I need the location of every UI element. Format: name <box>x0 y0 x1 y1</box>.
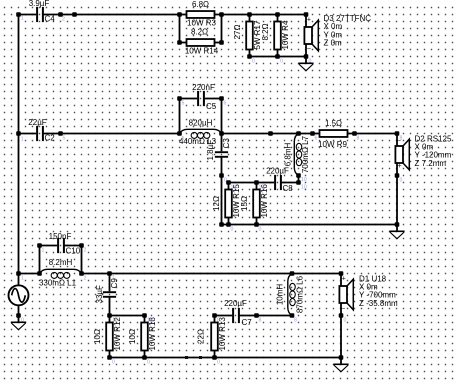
svg-text:22µF: 22µF <box>28 118 47 127</box>
svg-text:8: 8 <box>357 136 360 142</box>
svg-text:8: 8 <box>259 318 262 324</box>
svg-text:0: 0 <box>231 227 234 233</box>
svg-text:15Ω: 15Ω <box>240 196 249 211</box>
inductor L6 <box>288 274 295 316</box>
svg-text:5: 5 <box>182 136 185 142</box>
wire top line R3 to D3 <box>222 14 307 16</box>
svg-text:870mΩ L6: 870mΩ L6 <box>296 275 305 313</box>
wire D1 to ground rail <box>340 316 342 358</box>
wire gen to L1 <box>19 273 40 275</box>
svg-text:C3: C3 <box>222 138 231 149</box>
node (340.5,273.5) <box>339 271 344 276</box>
svg-text:2: 2 <box>62 17 65 23</box>
wire L7 to C8 <box>298 176 300 183</box>
wire C10 left leg <box>39 246 41 274</box>
svg-text:700mΩ L7: 700mΩ L7 <box>301 135 310 173</box>
node (298,133.5) <box>296 131 301 136</box>
wire C10 right leg <box>81 246 83 274</box>
node (60,133.5) <box>58 131 63 136</box>
resistor R16 <box>253 183 260 225</box>
svg-text:+: + <box>307 16 311 23</box>
svg-text:−: − <box>341 306 345 313</box>
svg-text:1: 1 <box>21 137 24 143</box>
node (291.5,315.5) <box>290 313 295 318</box>
svg-text:8: 8 <box>294 318 297 324</box>
inductor L7 <box>294 134 301 176</box>
svg-text:10Ω: 10Ω <box>128 329 137 344</box>
node (298,182.5) <box>296 180 301 185</box>
node (221,224.5) <box>219 222 224 227</box>
ground woofer <box>333 358 348 372</box>
resistor R15 <box>225 183 232 225</box>
capacitor C7 <box>215 308 257 323</box>
node (340.5,315.5) <box>339 313 344 318</box>
svg-text:+: + <box>342 275 346 282</box>
svg-text:C4: C4 <box>45 14 56 23</box>
ground tweeter <box>298 57 313 71</box>
speaker D3 <box>304 15 318 57</box>
svg-text:0: 0 <box>217 360 220 366</box>
node (256,182.5) <box>254 180 259 185</box>
wire C7 to L6 <box>257 315 293 317</box>
node (221,14.5) <box>219 12 224 17</box>
ground below generator <box>11 316 26 330</box>
svg-text:220µF: 220µF <box>266 166 289 175</box>
svg-text:330mΩ L1: 330mΩ L1 <box>39 279 77 288</box>
svg-text:10W R4: 10W R4 <box>281 20 290 49</box>
svg-text:220µF: 220µF <box>224 299 247 308</box>
svg-text:10mH: 10mH <box>276 284 285 306</box>
svg-text:−: − <box>307 46 311 53</box>
svg-text:220nF: 220nF <box>192 83 215 92</box>
node (214,357.5) <box>212 355 217 360</box>
node (256,224.5) <box>254 222 259 227</box>
svg-text:6: 6 <box>224 100 227 106</box>
svg-text:7: 7 <box>112 276 115 282</box>
node (109,357.5) <box>107 355 112 360</box>
svg-text:2: 2 <box>84 248 87 254</box>
wire R3-R14 left <box>179 15 181 43</box>
node (81,273.5) <box>79 271 84 276</box>
wire mid line C2 to L3 <box>61 133 180 135</box>
svg-text:10: 10 <box>301 177 307 183</box>
capacitor C8 <box>257 175 299 190</box>
wire mid line R9 to D2 <box>355 133 398 135</box>
svg-text:12Ω: 12Ω <box>212 196 221 211</box>
resistor R13 <box>211 316 218 358</box>
wire R12-R18 top rail <box>110 315 145 317</box>
svg-text:0: 0 <box>259 227 262 233</box>
capacitor C5 <box>180 91 222 106</box>
node (18,14.5) <box>16 12 21 17</box>
node (305.5,56.5) <box>304 54 309 59</box>
node (298,175.5) <box>296 173 301 178</box>
svg-text:+: + <box>398 163 402 170</box>
node (74,14.5) <box>72 12 77 17</box>
svg-text:16: 16 <box>259 185 265 191</box>
svg-text:0: 0 <box>400 178 403 184</box>
svg-text:2: 2 <box>84 276 87 282</box>
svg-text:Z -35.8mm: Z -35.8mm <box>359 299 398 308</box>
svg-text:1: 1 <box>42 248 45 254</box>
inductor L1 <box>40 269 82 278</box>
node (249,56.5) <box>247 54 252 59</box>
wire mid ground rail <box>222 224 398 226</box>
node (109,273.5) <box>107 271 112 276</box>
wire C5 left leg <box>179 99 181 134</box>
node (228,182.5) <box>226 180 231 185</box>
capacitor C10 <box>40 238 82 253</box>
AC generator G1 <box>9 274 29 316</box>
svg-text:0: 0 <box>280 59 283 65</box>
svg-text:1: 1 <box>21 16 24 22</box>
node (186,357.5) joint <box>185 356 188 359</box>
inductor L3 <box>180 129 222 138</box>
node (221,98.5) <box>219 96 224 101</box>
node (214,315.5) <box>212 313 217 318</box>
svg-text:1.8µF: 1.8µF <box>206 140 215 161</box>
svg-text:18: 18 <box>112 318 118 324</box>
resistor R18 <box>141 316 148 358</box>
node (396.5,133.5) <box>395 131 400 136</box>
node (221,175.5) <box>219 173 224 178</box>
svg-text:22Ω: 22Ω <box>196 329 205 344</box>
node (39,245.5) <box>37 243 42 248</box>
svg-text:10Ω: 10Ω <box>93 329 102 344</box>
node (256,315.5) <box>254 313 259 318</box>
svg-text:0: 0 <box>344 318 347 324</box>
resistor R17 <box>246 15 253 57</box>
resistor R3 <box>180 11 222 18</box>
speaker D2 <box>395 134 409 176</box>
svg-text:0: 0 <box>21 318 24 324</box>
capacitor C2 <box>19 126 61 141</box>
speaker D1 <box>339 274 353 316</box>
svg-text:1.5Ω: 1.5Ω <box>325 119 342 128</box>
resistor R9 <box>313 130 355 137</box>
svg-text:5: 5 <box>63 136 66 142</box>
svg-text:C7: C7 <box>242 318 253 327</box>
node (270,133.5) <box>268 131 273 136</box>
wire R3-R14 right <box>221 15 223 43</box>
svg-text:8: 8 <box>400 136 403 142</box>
svg-text:3.9µF: 3.9µF <box>29 0 50 8</box>
resistor R14 <box>180 39 222 46</box>
svg-text:27Ω: 27Ω <box>233 25 242 40</box>
capacitor C9 <box>103 274 116 316</box>
node (221,42.5) <box>219 40 224 45</box>
wire C5 right leg <box>221 99 223 134</box>
node (179,42.5) <box>177 40 182 45</box>
svg-text:C5: C5 <box>206 102 217 111</box>
wire D2 to ground rail <box>396 176 398 225</box>
node (18,273.5) <box>16 271 21 276</box>
node (396.5,175.5) <box>395 173 400 178</box>
svg-text:1: 1 <box>21 276 24 282</box>
node (81,245.5) <box>79 243 84 248</box>
svg-text:C8: C8 <box>283 184 294 193</box>
node (305.5,14.5) <box>304 12 309 17</box>
node (354,133.5) <box>352 131 357 136</box>
svg-text:150nF: 150nF <box>49 232 72 241</box>
wire top line C4 to R3 <box>61 14 180 16</box>
svg-text:16: 16 <box>231 185 237 191</box>
svg-text:16: 16 <box>147 318 153 324</box>
node (277,14.5) <box>275 12 280 17</box>
wire woofer line L1 to D1 <box>82 273 342 275</box>
capacitor C3 <box>215 134 228 176</box>
node (312,133.5) <box>310 131 315 136</box>
svg-text:33µF: 33µF <box>95 285 104 304</box>
node (39,273.5) <box>37 271 42 276</box>
svg-text:10W R14: 10W R14 <box>185 47 219 56</box>
wire C3 to mid ground rail <box>221 176 223 225</box>
wire mid line L3 to R9 <box>222 133 313 135</box>
svg-text:8.2Ω: 8.2Ω <box>261 23 270 40</box>
wire R15-R16 top rail <box>229 182 257 184</box>
wire tweeter bottom rail <box>250 56 307 58</box>
svg-text:0: 0 <box>112 360 115 366</box>
capacitor C4 <box>19 7 61 22</box>
svg-text:10W R9: 10W R9 <box>318 140 347 149</box>
node (60,14.5) <box>58 12 63 17</box>
svg-text:820µH: 820µH <box>189 119 213 128</box>
node (249,14.5) <box>247 12 252 17</box>
svg-text:C10: C10 <box>66 246 81 255</box>
resistor R4 <box>274 15 281 57</box>
node (179,133.5) <box>177 131 182 136</box>
node (144,315.5) <box>142 313 147 318</box>
svg-text:Z 7.2mm: Z 7.2mm <box>415 159 447 168</box>
node (291.5,273.5) <box>290 271 295 276</box>
svg-text:6.8mH: 6.8mH <box>284 142 293 166</box>
node (18,315.5) <box>16 313 21 318</box>
svg-text:Z 0m: Z 0m <box>324 39 343 48</box>
node (200,357.5) joint <box>199 356 202 359</box>
resistor R12 <box>106 316 113 358</box>
wire woofer ground rail <box>110 357 342 359</box>
node (18,133.5) <box>16 131 21 136</box>
svg-text:6.8Ω: 6.8Ω <box>192 0 209 9</box>
svg-text:5: 5 <box>182 100 185 106</box>
node (228,224.5) <box>226 222 231 227</box>
node (221,133.5) <box>219 131 224 136</box>
ground midrange <box>389 225 404 239</box>
svg-text:6: 6 <box>315 136 318 142</box>
node (396.5,224.5) <box>395 222 400 227</box>
svg-text:10W R3: 10W R3 <box>187 19 216 28</box>
svg-text:0: 0 <box>147 360 150 366</box>
node (179,98.5) <box>177 96 182 101</box>
svg-text:10: 10 <box>301 185 307 191</box>
node (109,315.5) <box>107 313 112 318</box>
svg-text:0: 0 <box>309 59 312 65</box>
node (340.5,357.5) <box>339 355 344 360</box>
svg-text:0: 0 <box>252 59 255 65</box>
node (277,56.5) <box>275 54 280 59</box>
svg-text:8.2Ω: 8.2Ω <box>191 28 208 37</box>
node (179,14.5) <box>177 12 182 17</box>
svg-text:8: 8 <box>217 318 220 324</box>
wire left rail <box>18 15 20 274</box>
node (144,357.5) <box>142 355 147 360</box>
svg-text:8.2mH: 8.2mH <box>49 258 73 267</box>
svg-text:C2: C2 <box>45 133 56 142</box>
